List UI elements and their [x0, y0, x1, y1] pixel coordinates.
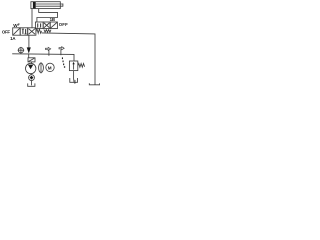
relief valve box — [69, 61, 77, 71]
svg-text:OFF: OFF — [2, 29, 10, 34]
tank center — [70, 78, 78, 82]
tank squiggle mark — [74, 80, 76, 82]
gauge circle — [18, 48, 23, 53]
flow arrow 1 — [46, 47, 51, 50]
piston rod top line — [36, 3, 63, 5]
coupling capsule — [39, 63, 44, 73]
pump circle — [26, 63, 36, 73]
pilot dashed dots — [62, 57, 65, 67]
piston — [33, 2, 36, 8]
check valve box — [28, 58, 35, 62]
valve 1B middle box — [43, 22, 50, 29]
wire pump down — [30, 74, 33, 75]
svg-text:1A: 1A — [10, 36, 16, 41]
flow arrow 2 stem — [60, 50, 62, 56]
wire relief to tank — [73, 71, 75, 80]
valve 1A solenoid box — [13, 28, 21, 35]
valve 1A spring — [36, 29, 42, 33]
valve 1A box1 blocked port T marks — [22, 29, 24, 34]
rod end — [62, 4, 64, 7]
piston rod bottom line — [36, 5, 63, 7]
relief valve internal arrow — [73, 63, 75, 69]
wire return line to right tank — [42, 33, 96, 85]
svg-text:OFF: OFF — [59, 22, 68, 27]
wire box to pump — [30, 62, 32, 64]
cylinder body — [31, 2, 60, 9]
wire strainer to tank — [31, 81, 33, 86]
wire valve 1A down — [28, 35, 30, 48]
valve 1B body box — [35, 22, 43, 29]
svg-text:1B: 1B — [50, 17, 55, 22]
wire cylinder left port down to valve 1A — [31, 9, 33, 28]
valve 1B spring below — [44, 30, 51, 33]
wire pressure line — [12, 54, 74, 61]
flow arrow 2 — [59, 47, 64, 50]
relief valve spring — [78, 64, 85, 68]
check arrow down — [27, 47, 31, 53]
svg-text:M: M — [48, 65, 52, 70]
valve 1A body box2 crossed arrows — [28, 28, 36, 35]
svg-text:F: F — [18, 23, 20, 27]
flow arrow 1 stem — [48, 50, 50, 56]
tank left — [28, 83, 35, 86]
pump triangle — [28, 65, 33, 70]
valve 1A body box1 — [20, 28, 28, 35]
valve 1B solenoid box — [50, 22, 57, 29]
wire pump up to line — [28, 54, 30, 58]
valve 1A solenoid diagonal — [13, 28, 20, 34]
wire valve 1B to return line — [47, 32, 49, 33]
right tank bottom bar — [89, 83, 99, 85]
motor circle — [46, 63, 54, 71]
wire cylinder right port elbow to valve 1B — [37, 9, 58, 22]
strainer circle — [29, 75, 35, 81]
